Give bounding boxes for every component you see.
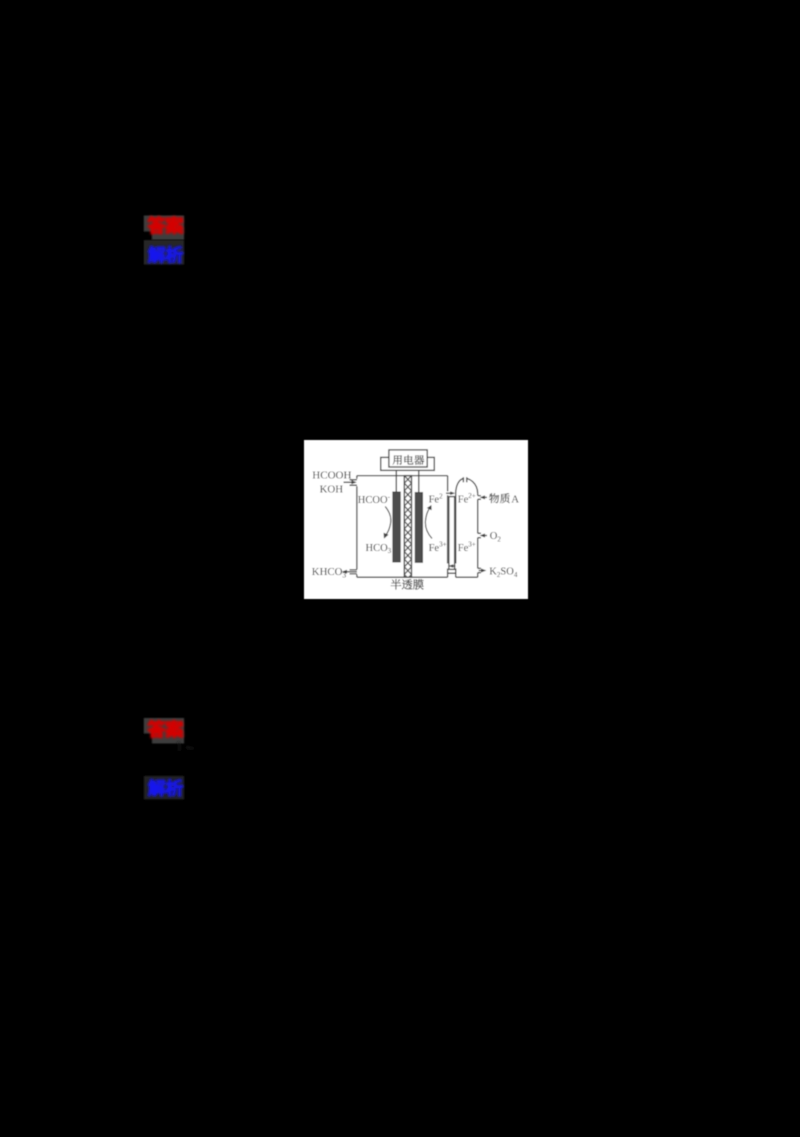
left curve arrowhead [384, 533, 389, 539]
svg-text:K2SO4: K2SO4 [489, 566, 518, 579]
cell right wall with gaps [447, 476, 449, 574]
blue analysis tag 1 background [144, 240, 184, 264]
outlet arrowhead [342, 570, 347, 574]
right curve arrowhead [427, 505, 432, 510]
electrode right [415, 493, 422, 563]
inlet arrow line [344, 481, 354, 483]
svg-text:A: A [511, 493, 519, 505]
channel top arrowhead [450, 491, 455, 495]
cell bottom wall [357, 576, 448, 578]
O2 arrowhead [480, 534, 485, 538]
svg-text:HCOO-: HCOO- [358, 493, 391, 506]
svg-text:KHCO3: KHCO3 [312, 566, 347, 580]
channel bottom flow arrow line [451, 565, 456, 567]
blue analysis tag 2 text 解析 [148, 779, 183, 796]
device text 用电器 [393, 455, 425, 465]
K2SO4 arrowhead [481, 569, 486, 573]
blue analysis tag 1 text 解析 [148, 246, 183, 263]
substance A arrowhead [480, 495, 485, 499]
channel top flow arrow line [446, 492, 453, 494]
cell left wall with inlet and outlet gaps [356, 476, 358, 578]
device box 用电器 [389, 450, 427, 467]
svg-text:KOH: KOH [320, 483, 344, 495]
K2SO4 arrow line [479, 570, 484, 572]
red answer tag 2 text 答案 [148, 720, 184, 738]
exchange channel rect [449, 497, 455, 570]
electrode left [393, 492, 401, 562]
substance A label 物质A [489, 493, 519, 505]
inlet arrowhead [351, 480, 356, 484]
dome notch ticks [463, 477, 466, 482]
svg-text:HCOOH: HCOOH [312, 470, 351, 482]
cell top wall [357, 475, 448, 477]
substance A arrow line [483, 496, 488, 498]
right curved reaction arrow [425, 507, 432, 539]
chemistry cell figure [304, 440, 528, 599]
tube right wall stub ticks [478, 496, 481, 573]
wire right electrode lead [418, 470, 420, 492]
bottom bridge between cell and tube [448, 573, 456, 577]
membrane label 半透膜 [391, 579, 424, 590]
left curved reaction arrow [385, 507, 391, 537]
tube right wall with three gaps [477, 494, 479, 578]
outlet arrow line [344, 571, 357, 573]
tube dome with top notch [456, 479, 478, 494]
channel bottom arrowhead [448, 564, 453, 568]
blue analysis tag 2 background [144, 776, 184, 799]
membrane border [404, 476, 411, 578]
faint punctuation marks [178, 742, 194, 751]
outlet stub ticks [350, 570, 357, 574]
device outer loop rect [381, 457, 435, 470]
red answer tag 1 text 答案 [148, 216, 184, 234]
O2 arrow line [483, 535, 488, 537]
figure white background [304, 440, 528, 599]
red answer tag 1 background [144, 216, 184, 240]
wire left electrode lead [395, 470, 397, 492]
tube left wall [455, 494, 457, 574]
red answer tag 2 background [144, 718, 184, 744]
inlet stub ticks [350, 480, 357, 485]
tube bottom wall [456, 576, 478, 578]
